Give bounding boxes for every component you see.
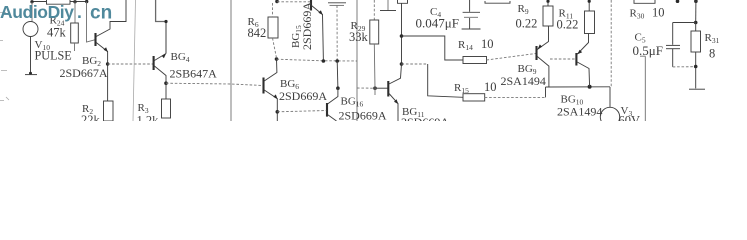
svg-text:2SA1494: 2SA1494 [501,74,546,88]
svg-text:0.22: 0.22 [516,17,538,31]
svg-text:2SA1494: 2SA1494 [557,105,602,119]
svg-text:842: 842 [248,26,267,40]
svg-text:60V: 60V [619,114,641,122]
svg-text:2SD669A: 2SD669A [279,89,327,103]
svg-text:33k: 33k [349,30,369,44]
svg-text:2SD667A: 2SD667A [60,66,108,80]
svg-text:AudioDiy: AudioDiy [0,2,74,22]
svg-text:2SD669A: 2SD669A [300,2,314,50]
svg-text:2SB647A: 2SB647A [170,67,218,81]
svg-text:0.5μF: 0.5μF [633,43,663,58]
svg-text:2SD669A: 2SD669A [401,115,449,121]
svg-text:cn: cn [90,3,112,24]
svg-text:0.047μF: 0.047μF [416,16,459,31]
svg-text:PULSE: PULSE [35,49,72,63]
svg-text:47k: 47k [47,26,67,40]
svg-text:.: . [77,2,82,22]
svg-text:1.2k: 1.2k [137,114,160,122]
svg-text:8: 8 [709,47,715,61]
svg-text:22k: 22k [81,113,101,121]
svg-text:0.22: 0.22 [557,18,579,32]
svg-text:2SD669A: 2SD669A [339,109,387,122]
